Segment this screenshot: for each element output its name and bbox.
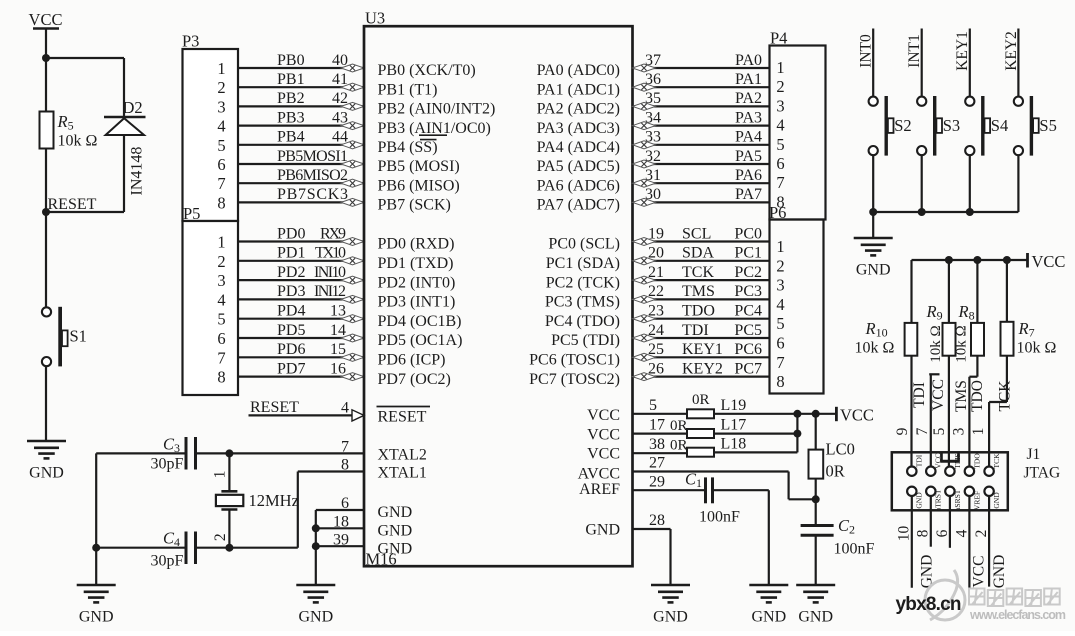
- svg-text:SDA: SDA: [682, 245, 714, 262]
- wire C1 to ground: [713, 490, 769, 585]
- U3 pin marker PD3: [341, 295, 364, 303]
- svg-text:PA6: PA6: [735, 167, 762, 184]
- U3 pin label PD2 (INT0): [378, 274, 456, 291]
- net label PB1: [277, 71, 348, 88]
- svg-text:PC3: PC3: [734, 283, 762, 300]
- wire U3 GND pin 18: [316, 527, 364, 529]
- U3 pin label PB1 (T1): [378, 81, 438, 98]
- node rail junction S3: [918, 208, 926, 216]
- pin 4 arrow: [352, 410, 364, 421]
- wire PC1 net: U3 to P6 pin2: [633, 260, 770, 262]
- net label PB2: [277, 90, 348, 107]
- U3 pin marker PD4: [341, 315, 364, 323]
- svg-text:1: 1: [970, 428, 987, 436]
- wire PA3 net: U3 to P4 pin4: [633, 124, 770, 126]
- U3 pin marker PA0: [633, 64, 656, 72]
- svg-text:JTAG: JTAG: [1024, 465, 1061, 482]
- connector J1 JTAG body: [892, 452, 1008, 510]
- svg-text:PA4: PA4: [735, 129, 762, 146]
- U3 pin marker PC2: [633, 276, 656, 284]
- svg-text:S1: S1: [70, 327, 87, 346]
- svg-text:P6: P6: [769, 203, 786, 222]
- wire switch S2 bottom: [872, 155, 874, 212]
- node L17 junction: [793, 430, 801, 438]
- wire R9 to JTAG pin5 (TMS): [948, 356, 950, 467]
- node L19/L17 junction: [793, 410, 801, 418]
- wire PC3 net: U3 to P6 pin4: [633, 298, 770, 300]
- U3 pin marker PD2: [341, 276, 364, 284]
- inductor L18 (0R): [687, 448, 714, 457]
- U3 pin marker PA3: [633, 122, 656, 130]
- connector P3: [183, 49, 239, 221]
- svg-text:PC1 (SDA): PC1 (SDA): [546, 255, 620, 272]
- wire AREF pin29 to C1: [633, 489, 705, 491]
- svg-text:7: 7: [776, 353, 784, 372]
- svg-text:ybx8.cn: ybx8.cn: [896, 594, 962, 615]
- J1 top pin circle (VCC): [926, 467, 935, 476]
- svg-text:1: 1: [217, 233, 225, 252]
- wire PB0 net: P3 pin1 to U3: [238, 67, 364, 69]
- svg-text:8: 8: [341, 457, 349, 474]
- J1 bottom pin circle (GND): [907, 487, 916, 496]
- crystal Y1 12MHz: [216, 491, 243, 509]
- resistor LC0 (0R): [809, 450, 824, 479]
- svg-text:KEY2: KEY2: [682, 360, 723, 377]
- wire L18 to VCC net: [714, 414, 797, 453]
- svg-text:30pF: 30pF: [151, 456, 184, 473]
- svg-text:10: 10: [896, 526, 913, 542]
- svg-text:18: 18: [333, 514, 349, 531]
- net label PD3 INI12: [277, 283, 346, 300]
- U3 pin marker PB7: [341, 198, 364, 206]
- svg-text:0R: 0R: [670, 418, 688, 434]
- svg-text:nTRST: nTRST: [934, 489, 943, 512]
- net label PB6MISO2: [277, 167, 348, 184]
- resistor R8: [971, 323, 984, 356]
- capacitor C3: [186, 437, 196, 470]
- svg-text:S5: S5: [1039, 116, 1056, 135]
- svg-text:TMS: TMS: [953, 453, 962, 468]
- wire J1 bottom pin 6: [949, 496, 951, 548]
- VCC power symbol top-left: [29, 10, 63, 29]
- svg-text:15: 15: [330, 341, 346, 358]
- wire C3 left lead: [96, 452, 184, 454]
- ground symbol (S1): [27, 441, 66, 482]
- wire PD2 net: P5 pin3 to U3: [238, 279, 364, 281]
- net label PD5 14: [277, 322, 346, 339]
- U3 pin label RESET (active low): [377, 407, 431, 426]
- svg-text:PA1: PA1: [735, 71, 762, 88]
- wire VCC rail (resistors): [912, 259, 1028, 261]
- U3 pin marker PD1: [341, 257, 364, 265]
- svg-text:GND: GND: [298, 609, 333, 626]
- svg-text:PB1: PB1: [277, 71, 305, 88]
- wire PD4 net: P5 pin5 to U3: [238, 318, 364, 320]
- svg-text:VCC: VCC: [587, 445, 620, 462]
- inductor L19 (0R): [687, 409, 714, 418]
- wire C2 to ground: [815, 535, 817, 585]
- svg-text:1: 1: [776, 58, 784, 77]
- svg-text:PD3: PD3: [277, 283, 305, 300]
- net label PD4 13: [277, 303, 346, 320]
- wire R7 to JTAG pin1 (TCK): [989, 356, 1007, 467]
- svg-text:RESET: RESET: [48, 196, 97, 213]
- svg-text:VCC: VCC: [840, 405, 874, 424]
- wire PD3 net: P5 pin4 to U3: [238, 298, 364, 300]
- wire GND pin28: [633, 529, 671, 585]
- svg-text:PD2: PD2: [277, 264, 305, 281]
- resistor R7: [1001, 322, 1014, 356]
- svg-text:2: 2: [212, 533, 229, 541]
- svg-text:17: 17: [649, 416, 665, 433]
- U3 pin marker PB1: [341, 83, 364, 91]
- svg-text:PB3 (AIN1/OC0): PB3 (AIN1/OC0): [378, 120, 491, 137]
- svg-text:2: 2: [776, 77, 784, 96]
- ground symbol (crystal caps): [77, 585, 116, 626]
- svg-text:PA2: PA2: [735, 90, 762, 107]
- svg-text:9: 9: [894, 427, 911, 435]
- wire RESET to U3 pin 4: [249, 414, 365, 416]
- U3 pin marker PC7: [633, 373, 656, 381]
- svg-text:SCL: SCL: [682, 225, 711, 242]
- svg-text:P5: P5: [183, 204, 200, 223]
- svg-text:PA6 (ADC6): PA6 (ADC6): [537, 177, 620, 194]
- svg-text:L18: L18: [721, 436, 747, 453]
- svg-text:5: 5: [217, 136, 225, 155]
- svg-text:PB7SCK3: PB7SCK3: [277, 186, 348, 203]
- wire AVCC pin27: [633, 472, 816, 500]
- ground symbol (C1): [749, 585, 788, 626]
- svg-text:PA7 (ADC7): PA7 (ADC7): [537, 197, 620, 214]
- svg-text:TDO: TDO: [969, 380, 986, 412]
- node rail R9: [945, 256, 953, 264]
- U3 pin label PD7 (OC2): [378, 371, 451, 388]
- svg-text:1: 1: [776, 237, 784, 256]
- svg-text:TCK: TCK: [682, 264, 714, 281]
- svg-text:7: 7: [341, 439, 349, 456]
- svg-text:10k Ω: 10k Ω: [954, 325, 970, 362]
- svg-text:TMS: TMS: [682, 283, 715, 300]
- U3 pin label PB3 (AIN1/OC0): [378, 120, 491, 137]
- U3 pin marker PB0: [341, 64, 364, 72]
- svg-text:PD6 (ICP): PD6 (ICP): [378, 352, 446, 369]
- wire rail to R7: [1006, 260, 1008, 322]
- wire L19 to VCC terminal: [714, 413, 836, 415]
- wire PD7 net: P5 pin8 to U3: [238, 376, 364, 378]
- svg-text:4: 4: [776, 295, 784, 314]
- wire PC0 net: U3 to P6 pin1: [633, 240, 770, 242]
- switch S1 (pushbutton): [42, 307, 68, 367]
- node AVCC/LC0/C2 junction: [812, 495, 820, 503]
- wire rail to R8: [976, 260, 978, 323]
- svg-text:8: 8: [217, 193, 225, 212]
- wire PB3 net: P3 pin4 to U3: [238, 124, 364, 126]
- svg-text:PB0: PB0: [277, 52, 305, 69]
- svg-text:6: 6: [776, 154, 784, 173]
- J1 top pin circle (TCK): [984, 467, 993, 476]
- svg-text:PA4 (ADC4): PA4 (ADC4): [537, 139, 620, 156]
- resistor R9: [943, 323, 956, 356]
- node rail R8: [973, 256, 981, 264]
- svg-text:L19: L19: [721, 397, 747, 414]
- svg-text:PA3 (ADC3): PA3 (ADC3): [537, 120, 620, 137]
- wire PA4 net: U3 to P4 pin5: [633, 144, 770, 146]
- node GND pin39 junction: [312, 542, 320, 550]
- svg-text:2: 2: [776, 256, 784, 275]
- watermark swirl logo: [925, 570, 965, 620]
- svg-text:PC0: PC0: [734, 225, 762, 242]
- U3 pin marker PA4: [633, 141, 656, 149]
- svg-text:VCC: VCC: [930, 379, 947, 411]
- svg-text:0R: 0R: [670, 438, 688, 454]
- svg-text:PB2: PB2: [277, 90, 305, 107]
- wire PC6 net: U3 to P6 pin7: [633, 356, 770, 358]
- svg-text:nSRST: nSRST: [953, 489, 962, 511]
- svg-text:3: 3: [217, 271, 225, 290]
- svg-text:S4: S4: [991, 116, 1008, 135]
- wire J1 bottom pin 8: [930, 496, 932, 547]
- svg-text:PB5 (MOSI): PB5 (MOSI): [378, 158, 460, 175]
- wire RESET node down to switch S1: [45, 212, 47, 307]
- svg-text:5: 5: [649, 397, 657, 414]
- svg-text:PB1 (T1): PB1 (T1): [378, 81, 438, 98]
- wire PA5 net: U3 to P4 pin6: [633, 163, 770, 165]
- svg-text:INI12: INI12: [314, 283, 346, 300]
- svg-text:PA0: PA0: [735, 52, 762, 69]
- node crystal pin2 junction: [225, 544, 233, 552]
- node rail R7: [1003, 256, 1011, 264]
- svg-text:1: 1: [217, 59, 225, 78]
- wire C4 left lead: [96, 547, 184, 549]
- wire PD6 net: P5 pin7 to U3: [238, 356, 364, 358]
- connector P6: [770, 220, 824, 394]
- VCC terminal (right): [836, 405, 874, 424]
- svg-text:PD6: PD6: [277, 341, 305, 358]
- U3 pin marker PD6: [341, 353, 364, 361]
- net label PD0 RX9: [277, 225, 346, 242]
- svg-text:5: 5: [776, 314, 784, 333]
- op IC U3 (M16 microcontroller) body: [364, 26, 633, 566]
- svg-text:3: 3: [776, 276, 784, 295]
- ground symbol (U3 GND pins): [296, 585, 335, 626]
- svg-text:13: 13: [330, 303, 346, 320]
- wire rail to ground: [872, 212, 874, 238]
- svg-text:GND: GND: [653, 609, 688, 626]
- net label PD7 16: [277, 360, 346, 377]
- wire U3 GND pin 39: [316, 545, 364, 547]
- resistor R5: [40, 112, 54, 149]
- wire PA1 net: U3 to P4 pin2: [633, 86, 770, 88]
- resistor R10: [905, 323, 918, 356]
- U3 pin marker PD0: [341, 238, 364, 246]
- svg-text:XTAL1: XTAL1: [378, 464, 427, 481]
- net label PB7SCK3: [277, 186, 348, 203]
- connector P4: [770, 46, 826, 220]
- wire switch S5 bottom: [1017, 155, 1019, 212]
- wire crystal top lead: [228, 453, 230, 491]
- svg-text:PD3 (INT1): PD3 (INT1): [378, 294, 456, 311]
- U3 pin marker PA1: [633, 83, 656, 91]
- wire PD5 net: P5 pin6 to U3: [238, 337, 364, 339]
- svg-text:PA3: PA3: [735, 109, 762, 126]
- svg-text:29: 29: [649, 473, 665, 490]
- wire rail to R9: [948, 260, 950, 323]
- svg-text:TDI: TDI: [911, 382, 928, 408]
- U3 pin label PB5 (MOSI): [378, 158, 460, 175]
- svg-text:PC0 (SCL): PC0 (SCL): [548, 236, 620, 253]
- wire PC2 net: U3 to P6 pin3: [633, 279, 770, 281]
- svg-text:PB4 (SS): PB4 (SS): [378, 139, 438, 156]
- svg-text:30pF: 30pF: [151, 553, 184, 570]
- U3 pin marker PC6: [633, 353, 656, 361]
- capacitor C2: [801, 526, 834, 536]
- svg-text:PB6 (MISO): PB6 (MISO): [378, 177, 460, 194]
- svg-text:PD0 (RXD): PD0 (RXD): [378, 236, 455, 253]
- svg-text:PD1: PD1: [277, 245, 305, 262]
- U3 pin label PB4 (SS): [378, 139, 438, 156]
- svg-text:VREF: VREF: [972, 491, 981, 510]
- net label PB4: [277, 129, 348, 146]
- svg-text:PB2 (AIN0/INT2): PB2 (AIN0/INT2): [378, 101, 496, 118]
- svg-text:INT1: INT1: [906, 34, 923, 68]
- svg-text:PC3 (TMS): PC3 (TMS): [545, 294, 620, 311]
- svg-text:PB5MOSI1: PB5MOSI1: [277, 148, 348, 165]
- ground symbol (C2): [796, 585, 835, 626]
- U3 pin marker PB4: [341, 141, 364, 149]
- svg-text:GND: GND: [378, 522, 413, 539]
- wire crystal bottom lead: [228, 510, 230, 548]
- J1 top pin circle (TDO): [965, 467, 974, 476]
- svg-text:28: 28: [649, 512, 665, 529]
- svg-text:KEY1: KEY1: [954, 31, 971, 71]
- wire PB7 net: P3 pin8 to U3: [238, 201, 364, 203]
- wire PD1 net: P5 pin2 to U3: [238, 260, 364, 262]
- svg-text:7: 7: [217, 174, 225, 193]
- wire INT1 to switch S3: [921, 29, 923, 98]
- svg-text:RESET: RESET: [378, 409, 427, 426]
- svg-text:TMS: TMS: [953, 380, 970, 412]
- wire VCC stub to JTAG pin7: [929, 374, 939, 467]
- svg-text:GND: GND: [991, 555, 1008, 589]
- diode D2 (cathode bar + triangle): [46, 117, 146, 212]
- svg-text:0R: 0R: [826, 462, 845, 481]
- U3 pin marker PC5: [633, 334, 656, 342]
- svg-text:10k Ω: 10k Ω: [1017, 340, 1057, 357]
- wire KEY2 to switch S5: [1017, 29, 1019, 98]
- node C4 left junction: [92, 544, 100, 552]
- svg-text:8: 8: [776, 372, 784, 391]
- svg-text:GND: GND: [751, 609, 786, 626]
- U3 pin marker PC4: [633, 315, 656, 323]
- svg-text:2: 2: [217, 252, 225, 271]
- svg-text:PD0: PD0: [277, 225, 305, 242]
- svg-text:GND: GND: [378, 540, 413, 557]
- svg-text:100nF: 100nF: [834, 541, 875, 558]
- svg-text:16: 16: [330, 360, 346, 377]
- svg-text:PB4: PB4: [277, 129, 305, 146]
- svg-text:PA5: PA5: [735, 148, 762, 165]
- node GND pin18 junction: [312, 524, 320, 532]
- wire R8 to JTAG pin3 (TDO): [969, 356, 977, 467]
- U3 pin marker PB3: [341, 122, 364, 130]
- node RESET junction: [42, 208, 50, 216]
- svg-text:PC7: PC7: [734, 360, 762, 377]
- svg-text:5: 5: [217, 310, 225, 329]
- svg-text:38: 38: [649, 436, 665, 453]
- svg-text:GND: GND: [585, 522, 620, 539]
- U3 pin label PB2 (AIN0/INT2): [378, 101, 496, 118]
- J1 bottom pin circle (nSRST): [945, 487, 954, 496]
- U3 pin label PD6 (ICP): [378, 352, 446, 369]
- svg-text:6: 6: [341, 495, 349, 512]
- wire branch to diode D2: [46, 58, 124, 117]
- svg-text:6: 6: [217, 155, 225, 174]
- svg-text:GND: GND: [798, 609, 833, 626]
- wire VCC down to RESET node: [45, 29, 47, 213]
- svg-text:4: 4: [776, 116, 784, 135]
- svg-text:4: 4: [217, 117, 225, 136]
- svg-text:4: 4: [341, 400, 349, 417]
- svg-text:6: 6: [934, 529, 951, 537]
- svg-text:100nF: 100nF: [699, 509, 740, 526]
- svg-text:GND: GND: [79, 609, 114, 626]
- capacitor C4: [186, 532, 196, 565]
- svg-text:L17: L17: [721, 417, 747, 434]
- U3 pin label PD4 (OC1B): [378, 313, 462, 330]
- U3 pin marker PC0: [633, 238, 656, 246]
- wire PC5 net: U3 to P6 pin6: [633, 337, 770, 339]
- svg-text:PD1 (TXD): PD1 (TXD): [378, 255, 454, 272]
- VCC terminal (resistor rail): [1028, 252, 1066, 271]
- J1 top pin circle (TDI): [907, 467, 916, 476]
- wire R10 to JTAG pin9 (TDI): [910, 356, 912, 467]
- svg-text:PB0 (XCK/T0): PB0 (XCK/T0): [378, 62, 476, 79]
- wire common switch rail: [873, 211, 1018, 213]
- svg-text:3: 3: [951, 427, 968, 435]
- wire PA0 net: U3 to P4 pin1: [633, 67, 770, 69]
- svg-text:P3: P3: [182, 32, 199, 51]
- node XTAL2/crystal junction: [225, 449, 233, 457]
- svg-text:GND: GND: [992, 492, 1001, 509]
- svg-text:PA1 (ADC1): PA1 (ADC1): [537, 81, 620, 98]
- svg-text:RESET: RESET: [250, 399, 299, 416]
- wire PB2 net: P3 pin3 to U3: [238, 105, 364, 107]
- svg-text:0R: 0R: [692, 392, 710, 408]
- wire PC7 net: U3 to P6 pin8: [633, 376, 770, 378]
- svg-text:VCC: VCC: [587, 407, 620, 424]
- wire PB6 net: P3 pin7 to U3: [238, 182, 364, 184]
- svg-text:7: 7: [217, 348, 225, 367]
- wire switch S3 bottom: [921, 155, 923, 212]
- svg-text:S2: S2: [894, 116, 911, 135]
- U3 pin label PD3 (INT1): [378, 294, 456, 311]
- svg-text:3: 3: [217, 97, 225, 116]
- svg-text:PC7 (TOSC2): PC7 (TOSC2): [529, 371, 620, 388]
- svg-text:3: 3: [776, 96, 784, 115]
- svg-text:PC1: PC1: [734, 245, 762, 262]
- svg-text:TX10: TX10: [315, 245, 346, 262]
- svg-text:KEY1: KEY1: [682, 341, 723, 358]
- switch S2 (pushbutton): [869, 96, 894, 156]
- svg-text:PD2 (INT0): PD2 (INT0): [378, 274, 456, 291]
- svg-text:TDI: TDI: [682, 322, 709, 339]
- net label PB5MOSI1: [277, 148, 348, 165]
- svg-text:TDI: TDI: [915, 454, 924, 467]
- net label PB3: [277, 109, 348, 126]
- wire C3 right lead to XTAL2 net: [196, 452, 365, 454]
- switch S3 (pushbutton): [917, 96, 942, 156]
- wire INT0 to switch S2: [872, 29, 874, 98]
